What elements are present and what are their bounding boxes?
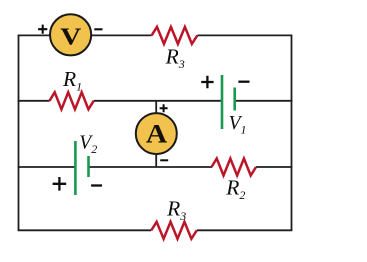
resistor R3 bottom — [151, 222, 197, 239]
wire bottom rail left segment — [18, 229, 152, 231]
ammeter minus sign — [160, 159, 168, 161]
resistor R2 — [212, 159, 257, 176]
wire row3 middle segment — [89, 166, 213, 168]
battery V2 minus sign — [91, 184, 102, 186]
battery V1 long plate — [221, 75, 224, 129]
voltmeter V circle — [50, 14, 91, 55]
wire ammeter branch — [155, 101, 157, 167]
svg-text:A: A — [146, 118, 167, 148]
battery V1 short plate — [233, 88, 236, 111]
wire top rail right segment — [197, 34, 292, 36]
battery V2 short plate — [87, 156, 90, 177]
wire row3 left segment — [18, 166, 76, 168]
battery V1 minus sign — [238, 81, 249, 83]
wire row2 left segment — [18, 100, 50, 102]
voltmeter minus sign — [94, 28, 102, 30]
wire row2 middle segment — [94, 100, 222, 102]
svg-text:V: V — [60, 24, 81, 51]
battery V2 plus sign — [53, 177, 67, 191]
battery V1 plus sign — [201, 76, 213, 88]
resistor R1 — [50, 92, 94, 109]
wire top rail left segment — [18, 34, 152, 36]
wire row2 right segment — [235, 100, 293, 102]
wire left vertical — [18, 35, 20, 230]
voltmeter plus sign — [38, 25, 47, 34]
ammeter plus sign — [160, 104, 168, 112]
resistor R3 top — [152, 27, 198, 44]
wire bottom rail right segment — [197, 229, 293, 231]
wire right vertical — [291, 35, 293, 230]
wire row3 right segment — [256, 166, 292, 168]
battery V2 long plate — [74, 141, 77, 195]
ammeter A circle — [136, 113, 177, 154]
